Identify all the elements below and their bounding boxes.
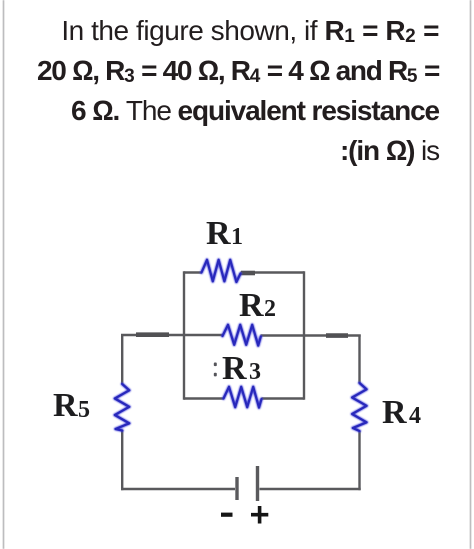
svg-text:R: R [239, 287, 264, 324]
wire: middle row left (outer-left node to R2) [121, 334, 223, 336]
question text [37, 11, 439, 172]
wire: left outer vertical below R5 [121, 430, 123, 490]
svg-text:R: R [206, 215, 231, 252]
svg-text:5: 5 [78, 397, 90, 423]
battery plate short (negative) [235, 477, 238, 500]
junction blob on middle wire right [326, 333, 348, 338]
wire: bottom left (to battery minus plate) [121, 488, 235, 490]
wire: inner rect bottom-left segment to R3 [184, 397, 224, 399]
wire: inner rect right vertical [303, 271, 305, 399]
svg-text:R: R [222, 350, 247, 387]
resistor R2 zigzag [223, 325, 261, 346]
resistor R3 zigzag [224, 387, 262, 408]
svg-text:R: R [382, 394, 407, 431]
colon artifact left of R3 [214, 363, 217, 377]
resistor R1 zigzag [202, 260, 241, 282]
wire: inner rect left vertical [183, 271, 185, 399]
svg-text:4: 4 [409, 403, 421, 429]
wire: bottom right (from battery plus plate) [260, 488, 361, 490]
right page border [470, 0, 472, 549]
wire: right outer vertical below R4 [358, 431, 360, 490]
junction blob on middle wire left [136, 332, 169, 337]
wire: right outer vertical above R4 [358, 335, 360, 384]
svg-text:3: 3 [249, 359, 261, 385]
svg-text:1: 1 [231, 224, 243, 250]
svg-text:R: R [53, 387, 78, 424]
left page border [3, 0, 5, 549]
junction blob on R1 row right of resistor [241, 271, 255, 276]
wire: middle row right (R2 to outer-right node) [261, 334, 361, 336]
battery plate long (positive) [256, 466, 259, 501]
battery plus label [251, 506, 268, 524]
resistor R4 zigzag [352, 383, 367, 431]
resistor R5 zigzag [115, 384, 130, 431]
wire: R1 to inner rect top-right [241, 271, 305, 273]
wire: inner rect top-left segment to R1 [184, 271, 202, 273]
svg-text:2: 2 [264, 296, 276, 322]
wire: left outer vertical above R5 [121, 334, 123, 384]
wire: R3 to inner rect bottom-right [262, 397, 305, 399]
battery minus label [221, 513, 233, 517]
